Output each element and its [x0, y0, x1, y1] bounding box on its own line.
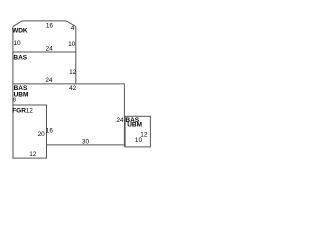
svg-text:12: 12: [69, 69, 77, 76]
svg-text:BAS: BAS: [13, 54, 27, 61]
svg-text:10: 10: [68, 41, 76, 48]
svg-text:WDK: WDK: [12, 27, 28, 34]
svg-text:24: 24: [46, 45, 54, 52]
wire bottom main: [47, 144, 125, 146]
wire left chamfer: [13, 21, 22, 27]
svg-text:10: 10: [14, 40, 22, 47]
wire right chamfer: [66, 21, 75, 27]
svg-text:24: 24: [116, 117, 124, 124]
svg-text:30: 30: [82, 139, 90, 146]
svg-text:12: 12: [29, 151, 37, 158]
wire WDK/BAS divider: [13, 51, 76, 53]
wire long horizontal: [13, 83, 125, 85]
svg-text:12: 12: [26, 108, 34, 115]
svg-text:20: 20: [38, 131, 46, 138]
wire WDK top edge: [22, 20, 66, 22]
FGR box: [13, 105, 47, 158]
svg-text:24: 24: [45, 77, 53, 84]
svg-text:16: 16: [46, 128, 54, 135]
svg-text:FGR: FGR: [12, 108, 26, 115]
svg-text:4: 4: [71, 25, 75, 32]
svg-text:10: 10: [135, 137, 143, 144]
svg-text:42: 42: [69, 85, 77, 92]
svg-text:8: 8: [13, 97, 16, 103]
svg-text:16: 16: [46, 22, 54, 29]
svg-text:UBM: UBM: [127, 122, 142, 129]
wire right vertical: [123, 84, 125, 147]
wire left edge: [12, 27, 14, 105]
right BAS/UBM box: [125, 116, 150, 147]
wire right edge upper: [75, 27, 77, 84]
